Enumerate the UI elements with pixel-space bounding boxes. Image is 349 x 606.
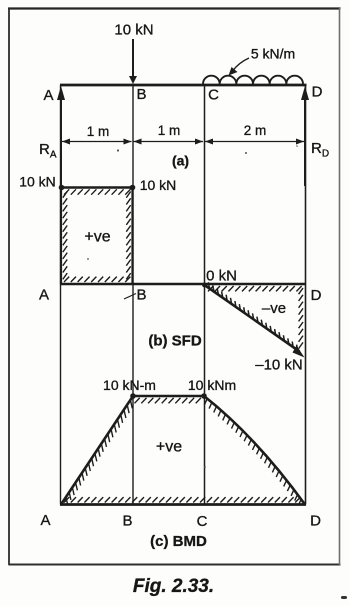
SFD rectangle left edge bbox=[60, 188, 62, 285]
svg-text:C: C bbox=[208, 87, 219, 104]
support column line A bbox=[60, 85, 62, 505]
svg-text:–10 kN: –10 kN bbox=[255, 357, 303, 374]
svg-text:10 kN: 10 kN bbox=[114, 22, 153, 39]
svg-text:B: B bbox=[136, 86, 146, 103]
svg-text:C: C bbox=[197, 513, 208, 530]
node label B (SFD baseline) bbox=[124, 287, 147, 304]
svg-text:10 kN: 10 kN bbox=[140, 177, 177, 193]
svg-text:D: D bbox=[311, 287, 322, 304]
leader arrow to UDL bbox=[229, 58, 250, 76]
BMD top edge B-C (10 kN-m) bbox=[130, 393, 207, 399]
svg-text:(b) SFD: (b) SFD bbox=[148, 333, 201, 350]
beam ABCD bbox=[60, 84, 307, 87]
SFD zero line A-D bbox=[60, 283, 306, 286]
SFD rectangle right edge bbox=[131, 188, 133, 285]
BMD baseline A-D bbox=[60, 503, 306, 506]
support column line B bbox=[132, 85, 134, 505]
point load arrow 10 kN at B bbox=[129, 39, 137, 84]
svg-text:10 kNm: 10 kNm bbox=[188, 377, 236, 393]
reaction arrow R_D (up at D) bbox=[301, 86, 309, 186]
SFD rectangle top edge (+10 kN level) bbox=[59, 185, 136, 191]
svg-text:1 m: 1 m bbox=[87, 124, 110, 139]
svg-text:A: A bbox=[43, 87, 53, 104]
svg-text:B: B bbox=[136, 287, 146, 304]
svg-text:B: B bbox=[122, 513, 132, 530]
reaction arrow R_A (up at A) bbox=[57, 86, 65, 186]
SFD sloping line C to D (-10 kN) with arrowhead bbox=[202, 283, 304, 358]
SFD triangle hatching bbox=[208, 282, 303, 351]
BMD parabolic curve C to D bbox=[204, 396, 305, 505]
svg-text:D: D bbox=[312, 84, 323, 101]
svg-text:1 m: 1 m bbox=[158, 123, 181, 138]
svg-text:10 kN-m: 10 kN-m bbox=[103, 377, 156, 393]
UDL coil humps 5 kN/m over CD bbox=[203, 76, 303, 84]
svg-text:+ve: +ve bbox=[84, 229, 110, 246]
BMD hatching bbox=[64, 398, 301, 506]
scan specks bbox=[87, 145, 347, 599]
support column line D bbox=[305, 85, 307, 505]
svg-text:D: D bbox=[310, 513, 321, 530]
svg-text:A: A bbox=[39, 287, 49, 304]
svg-text:10 kN: 10 kN bbox=[19, 174, 56, 190]
svg-text:(c) BMD: (c) BMD bbox=[150, 533, 207, 550]
svg-text:5 kN/m: 5 kN/m bbox=[251, 46, 295, 62]
dimension line C-D (2 m) bbox=[205, 139, 304, 145]
svg-text:2 m: 2 m bbox=[244, 123, 267, 138]
SFD rectangle hatching bbox=[63, 189, 131, 282]
svg-text:0 kN: 0 kN bbox=[206, 268, 237, 285]
BMD rising line A to B (0 to 10 kN-m) bbox=[61, 396, 133, 505]
svg-text:Fig. 2.33.: Fig. 2.33. bbox=[133, 576, 214, 597]
svg-text:A: A bbox=[40, 512, 50, 529]
dimension line A-B (1 m) bbox=[62, 139, 132, 145]
support column line C bbox=[204, 85, 206, 505]
dimension line B-C (1 m) bbox=[134, 139, 204, 145]
svg-text:(a): (a) bbox=[172, 153, 189, 169]
svg-text:+ve: +ve bbox=[156, 439, 182, 456]
svg-text:–ve: –ve bbox=[262, 300, 286, 317]
